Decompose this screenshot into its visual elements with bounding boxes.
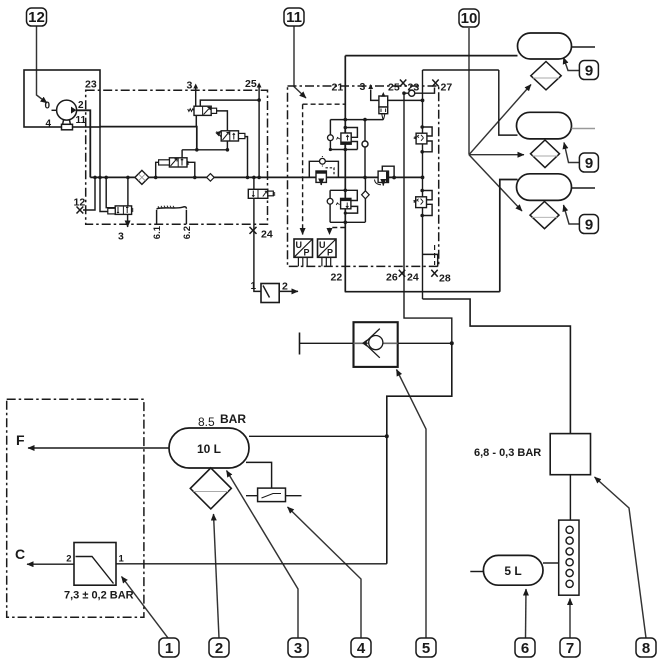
test point diamond (10L reservoir) [190, 468, 231, 509]
filter F1 on gallery [135, 170, 149, 184]
pressure regulator R1 [379, 93, 388, 120]
orifice circle on X27 link [409, 90, 415, 96]
reservoir 9a outlet stub [572, 46, 596, 48]
svg-text:0: 0 [44, 101, 50, 112]
label 3 [288, 638, 308, 657]
label 6 leader [525, 589, 528, 638]
junction dots (middle box) [329, 91, 425, 224]
wire: main column 21/22 [344, 56, 346, 292]
svg-text:3: 3 [187, 80, 193, 92]
reservoir 9b [517, 112, 572, 139]
overflow valve V5 (on gallery) [309, 156, 338, 185]
svg-text:21: 21 [332, 82, 344, 94]
port 3 vent triangle (middle box) [368, 84, 373, 89]
svg-text:28: 28 [439, 273, 451, 285]
label 1 [159, 638, 179, 657]
label 4 [351, 638, 371, 657]
label 9 (top) [579, 61, 598, 80]
wire: check valve output to port 24 junction [387, 343, 452, 564]
valve V1 (safety valve) [188, 106, 217, 115]
svg-text:6: 6 [521, 640, 529, 657]
svg-text:12: 12 [74, 197, 86, 209]
compressor C1 [57, 100, 77, 130]
regeneration hose 6.1/6.2 [157, 206, 187, 225]
svg-text:5 L: 5 L [504, 564, 521, 578]
pressure switch PS1 [246, 488, 302, 502]
air reservoir 5L [483, 555, 543, 585]
wire: port 24 column (middle box) [404, 93, 452, 343]
dashed link to X28 [434, 245, 436, 265]
port X 24 test point [250, 227, 257, 234]
wire: regulator top to vent 3 [371, 90, 379, 101]
wire: X27 orifice link [404, 88, 435, 94]
wire: X28 branch [423, 254, 438, 266]
wire: circuit node branch [364, 120, 366, 178]
wire: regulator right to column [388, 99, 423, 101]
valve V1 (safety valve) wires [195, 89, 197, 107]
label 7 [560, 638, 580, 657]
port X 27 test point [432, 80, 438, 87]
svg-text:9: 9 [585, 155, 593, 172]
test point diamond 9a [531, 62, 561, 90]
svg-text:4: 4 [357, 640, 366, 657]
branch arrows to reservoir test points [469, 85, 531, 155]
label 4 leader [288, 507, 362, 638]
svg-text:7: 7 [566, 640, 574, 657]
wire: unloader pilot riser [106, 177, 117, 209]
svg-text:F: F [16, 432, 25, 448]
port 25 vent triangle [257, 83, 262, 88]
svg-text:6.2: 6.2 [182, 226, 193, 239]
port X 24 test point (middle) [399, 270, 405, 277]
svg-text:24: 24 [261, 229, 273, 241]
pressure reducing valve PR1 [74, 543, 116, 586]
valve V4 (pressure limiter to 24) [248, 189, 274, 198]
wire: solenoid 1 pilot loop [345, 128, 357, 138]
air reservoir 10L [169, 428, 249, 468]
svg-text:4: 4 [45, 119, 51, 130]
wire: 5L reservoir left stub [470, 571, 483, 573]
svg-text:7,3 ± 0,2 BAR: 7,3 ± 0,2 BAR [64, 590, 134, 602]
svg-text:1: 1 [165, 640, 173, 657]
pressure limiting valve box 8 [550, 434, 590, 475]
label 7 leader [569, 599, 571, 639]
svg-text:C: C [15, 546, 25, 562]
wire: solenoid 2 pilot loop [345, 206, 357, 213]
label 8 leader [595, 477, 647, 638]
port 12 test X [77, 207, 84, 214]
test point diamond 9b [531, 140, 560, 168]
label 5 leader [397, 370, 427, 639]
label 11 [284, 8, 304, 26]
svg-text:22: 22 [331, 272, 343, 284]
svg-text:P: P [304, 248, 310, 258]
check valve CV1 wires [300, 342, 452, 344]
wire: solenoid 1 bottom [330, 149, 357, 151]
svg-text:1: 1 [250, 281, 256, 292]
label 9 (middle) [579, 153, 598, 172]
node diamond on gallery [207, 174, 215, 182]
svg-text:2: 2 [78, 100, 84, 111]
label 10 leader [468, 28, 470, 155]
drain valve V7 (on gallery) [375, 166, 397, 185]
port X 23 test point [400, 80, 406, 87]
wire: right valve column [422, 70, 424, 299]
svg-text:11: 11 [286, 9, 302, 26]
wire: port 2 pipe down to gallery [77, 110, 91, 177]
svg-text:25: 25 [388, 82, 400, 94]
svg-text:23: 23 [85, 79, 97, 91]
label 9 (bottom) [579, 215, 598, 234]
compressor enclosure box [24, 70, 100, 127]
svg-text:24: 24 [407, 272, 419, 284]
dashed leader to transducer 1 [302, 231, 304, 235]
wire: regulator output manifold [330, 119, 383, 121]
svg-text:26: 26 [386, 272, 398, 284]
wire: solenoid 1 left drop [329, 120, 331, 150]
svg-text:BAR: BAR [220, 412, 246, 426]
solenoid valve S1 [328, 133, 352, 144]
air dryer unit dash-dot boundary [86, 90, 268, 224]
svg-text:6.1: 6.1 [152, 225, 163, 239]
label 9 (top) leader [564, 58, 581, 71]
svg-text:3: 3 [118, 231, 124, 243]
wire: bottom link 22 to 27 column [345, 291, 500, 293]
junction dots on gallery [93, 98, 261, 179]
svg-text:P: P [327, 248, 333, 258]
svg-text:27: 27 [441, 82, 453, 94]
test point diamond 9c [530, 202, 559, 229]
label 2 [209, 638, 229, 657]
main gallery wire [90, 176, 422, 178]
relief valve V8 (upper right) [415, 127, 433, 152]
junction dot at reservoir line [385, 434, 389, 438]
label 12 [27, 8, 47, 26]
svg-text:1: 1 [119, 554, 125, 565]
reservoir 9b outlet stub [572, 128, 596, 130]
F outlet arrow [28, 447, 169, 449]
wire: solenoid 1 lower stub [344, 144, 346, 149]
wire: reservoir to pressure switch [246, 462, 272, 488]
svg-text:9: 9 [585, 217, 593, 234]
label 11 leader [294, 26, 306, 98]
label 9 (bottom) leader [564, 205, 581, 224]
svg-text:25: 25 [245, 78, 257, 90]
label 9 (middle) leader [564, 143, 580, 163]
wire: node diamond branch [364, 177, 366, 222]
wire: supply to reservoir 2 [499, 70, 518, 135]
label 3 leader [227, 471, 299, 639]
solenoid valve S2 [327, 198, 351, 208]
wire: supply to reservoir 1 [345, 55, 517, 57]
wire: purge line [100, 127, 197, 150]
junction dot at check valve output [450, 341, 454, 345]
dashed link to transducer 2 [330, 228, 346, 235]
svg-text:12: 12 [28, 9, 45, 26]
svg-text:9: 9 [585, 63, 593, 80]
pressure test connector box (port 2 output) [261, 284, 279, 303]
node diamond (solenoid 2) [362, 191, 370, 199]
pressure transducer U/P 1 [294, 239, 313, 266]
svg-text:U: U [319, 240, 326, 250]
wire: solenoid 1 lower loop [351, 142, 357, 150]
label 12 leader [37, 26, 48, 103]
label 8 [636, 638, 656, 657]
wire: box edge feed to unloader [100, 127, 116, 212]
check valve CV1 [354, 322, 398, 367]
wire: supply to reservoir 3 [500, 180, 518, 292]
svg-text:2: 2 [215, 640, 223, 657]
label 6 [515, 638, 535, 657]
ECU dashed boundary [303, 104, 346, 231]
svg-text:U: U [296, 240, 303, 250]
wire: solenoid 2 bottom [330, 221, 365, 223]
valve V2 (pressure limiter) wires [245, 137, 248, 178]
C outlet arrow [27, 563, 74, 565]
wire: box 8 output [569, 475, 571, 520]
pressure transducer U/P 2 [318, 239, 337, 266]
plugged end cap [299, 333, 301, 355]
wire: solenoid 2 top link [330, 190, 357, 200]
svg-text:8.5: 8.5 [198, 415, 215, 429]
label 10 [459, 9, 479, 27]
utility circuit dash-dot boundary (F/C) [7, 399, 144, 617]
svg-text:6,8 - 0,3 BAR: 6,8 - 0,3 BAR [474, 447, 541, 459]
port 24 column wire [254, 177, 261, 291]
svg-text:3: 3 [360, 81, 366, 93]
valve V3 (governor) wires [182, 150, 227, 158]
wire: C-line from junction to reducer [116, 563, 387, 565]
wire: cross line to port 27 side [423, 69, 499, 71]
relief valve V9 (lower right) [414, 191, 432, 216]
reservoir 9c [517, 174, 572, 201]
label 2 leader [214, 514, 220, 638]
valve V3 (governor) [159, 158, 189, 167]
label 5 [416, 638, 436, 657]
solenoid valve unit dash-dot boundary [288, 86, 439, 266]
reservoir 9c outlet stub [572, 187, 596, 189]
port 3 vent triangle [193, 84, 198, 89]
label 1 leader [122, 577, 169, 639]
svg-text:3: 3 [294, 640, 302, 657]
svg-text:10: 10 [461, 10, 478, 27]
unloader exhaust arrow [127, 214, 129, 227]
svg-text:10 L: 10 L [197, 442, 221, 456]
port X 28 test point [431, 270, 437, 277]
svg-text:8: 8 [642, 640, 650, 657]
wire: port 0 stub [52, 109, 58, 111]
wire: 5L reservoir to manifold [543, 562, 559, 564]
unloader valve V6 [108, 206, 133, 215]
wire: solenoid 2 left drop [329, 190, 331, 222]
valve V2 (pressure limiter) [216, 131, 245, 141]
svg-text:5: 5 [422, 640, 430, 657]
wire: trailer supply (wire A) [423, 299, 571, 453]
wire: unloader output riser [127, 177, 129, 206]
svg-text:2: 2 [66, 554, 71, 565]
wire: reservoir to F-line [249, 435, 387, 437]
node circle [362, 141, 368, 147]
connector output arrow [279, 290, 298, 292]
reservoir 9a [518, 33, 572, 59]
svg-text:11: 11 [76, 115, 87, 126]
distribution manifold (item 7) [559, 520, 579, 595]
port 25 riser wire [258, 88, 260, 178]
wire: port 12 line [83, 177, 95, 210]
